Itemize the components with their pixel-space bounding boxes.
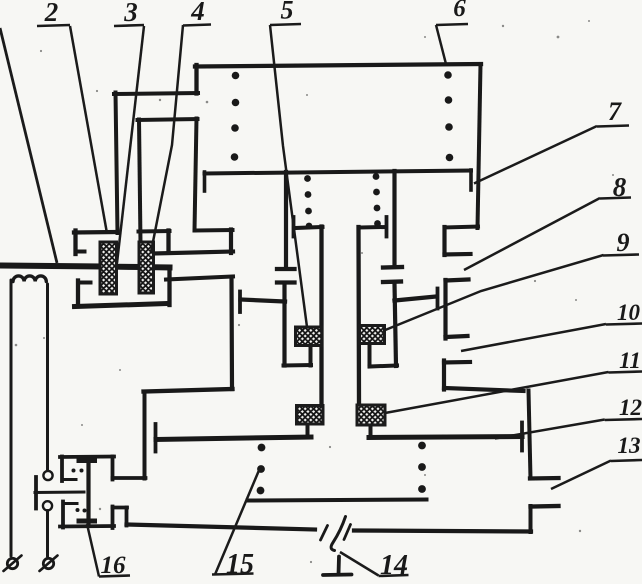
wire [442,227,446,255]
valve rod right [392,171,396,266]
cylinder rail left [319,227,323,407]
wire [368,345,372,366]
rail end tick left [203,172,207,191]
wire [196,228,233,233]
wire [153,264,170,270]
underline 6 [436,24,468,25]
underline 8 [600,198,631,199]
wire [75,304,169,307]
underline 16 [99,576,130,577]
wire to terminal left [10,280,13,556]
svg-text:11: 11 [619,348,641,373]
underline 7 [597,126,629,127]
wire [445,252,471,257]
wire [383,265,402,270]
hatched boxes [100,242,385,425]
wire [383,279,401,284]
wire [529,391,531,479]
leader 12 [495,420,605,439]
underline 4 [183,25,211,26]
underline 2 [37,25,70,26]
underline 11 [609,372,642,373]
wire [436,289,440,309]
wire [76,250,85,254]
svg-text:15: 15 [226,549,254,580]
wire [361,225,386,230]
wire [113,506,128,510]
relay block 16 [35,457,146,529]
wire [445,227,479,228]
wire [46,511,49,557]
leader 1 [0,28,57,263]
coil winding left [100,242,117,294]
wire [111,507,115,529]
contact bar [86,460,90,524]
underline 5 [270,24,301,25]
contact pad top [77,459,98,464]
wire [166,277,233,280]
leader 15 [215,469,260,575]
rail end tick right [469,170,473,190]
wires and terminals [4,276,58,571]
wire [78,281,91,285]
switch stem [337,557,341,575]
housing step left [114,93,198,94]
svg-text:12: 12 [619,395,642,420]
svg-text:3: 3 [123,0,138,27]
wire [369,426,373,436]
contact arm [62,478,76,481]
contact arm lower [63,502,77,505]
underline 3 [114,25,144,26]
wire [277,267,295,271]
wire to contact [46,284,49,471]
wire [443,280,447,339]
svg-text:8: 8 [613,172,627,202]
wire [60,524,114,528]
wire [446,336,468,337]
switch 14 [321,517,352,576]
svg-text:10: 10 [617,300,641,325]
switch base [323,573,352,577]
piston plate left [156,437,311,440]
leader 13 [551,461,611,490]
wire [111,457,115,480]
wire [116,264,140,270]
wire [529,506,533,532]
wire [370,366,398,367]
seal upper-left [296,327,323,346]
wire [520,423,524,451]
svg-text:5: 5 [281,0,294,25]
cylinder rail right [356,227,361,406]
wire [60,455,114,459]
switch contact tick right [344,525,351,540]
leader 2 [70,26,107,231]
wire [76,281,80,306]
cylinder floor line [248,500,427,501]
seal lower-left [297,406,324,425]
leader 8 [464,198,600,270]
coil winding right [139,242,154,293]
wire [295,227,323,228]
wire [292,217,296,237]
spring dots top-right column [444,71,452,79]
leader 11 [385,372,609,413]
leader 4 [151,25,183,252]
wire [531,504,559,509]
wire [154,252,233,254]
wire [241,300,286,302]
wire [154,424,158,452]
wire [442,361,446,390]
seal upper-right [360,326,385,344]
contact pad bottom [77,519,98,524]
switch blade [331,517,345,551]
terminal left [7,558,17,568]
wire [385,217,389,237]
wire [530,476,559,481]
svg-text:7: 7 [608,97,622,126]
bottom line left [127,525,316,530]
wire [166,231,170,253]
wire [277,280,295,284]
housing left edge [194,65,198,94]
valve rod left [284,172,288,267]
spring dots mid-left column [304,175,311,182]
inner wall 2 [139,120,141,244]
inner step [138,119,198,120]
leader 10 [461,324,606,351]
underline 12 [605,419,642,420]
leader 5 [270,25,307,327]
wire [35,491,84,495]
underline 10 [606,324,642,325]
spring dots mid-right column [373,173,380,180]
contact dots [72,469,76,473]
wire [113,476,146,480]
svg-text:14: 14 [380,550,408,581]
wire [444,388,524,391]
leader 14 [340,552,379,576]
armature bar [2,266,101,267]
spring dots top-left column [232,72,240,80]
housing top edge [195,64,481,67]
outer wall left [116,93,118,234]
svg-text:16: 16 [101,552,127,579]
housing right edge [478,65,481,229]
underline 13 [611,460,642,461]
wire [74,230,116,235]
underline 15 [212,574,254,575]
wire [284,363,312,368]
wire [167,268,171,306]
terminal right [43,558,53,568]
wire [395,297,437,301]
svg-text:13: 13 [618,433,641,458]
contact circle lower [43,501,52,510]
leader 9 [384,255,604,331]
underline 9 [603,255,639,256]
wire [309,345,313,366]
wire [395,284,397,367]
leader 6 [436,25,446,64]
svg-text:9: 9 [617,228,630,257]
wire [229,230,233,254]
wire [125,508,129,526]
coil [13,276,46,282]
spring dots [231,71,454,494]
underline 14 [379,575,409,576]
wire [73,231,77,255]
wire [60,457,64,482]
switch contact tick left [321,526,328,541]
bottom line right [354,531,531,532]
wire [282,284,286,366]
armature lever [34,477,38,509]
leader 7 [474,126,597,184]
inner wall [195,119,197,231]
wire [143,392,147,479]
wire [144,389,233,392]
piston plate right [369,437,522,438]
wire [139,229,170,234]
spring dots bottom-left column [258,444,266,452]
svg-text:4: 4 [190,0,205,26]
wire [444,360,470,365]
contact circle upper [43,471,52,480]
wire [229,278,234,390]
svg-text:2: 2 [44,0,59,27]
leader 3 [117,26,144,263]
wire [238,292,242,313]
seal lower-right [357,405,385,425]
wire [61,502,65,528]
wire [446,280,469,281]
top plate bottom rail [205,171,472,174]
wire [306,424,310,435]
spring dots bottom-right column [418,442,426,450]
leader 16 [87,524,99,577]
svg-text:6: 6 [453,0,466,22]
